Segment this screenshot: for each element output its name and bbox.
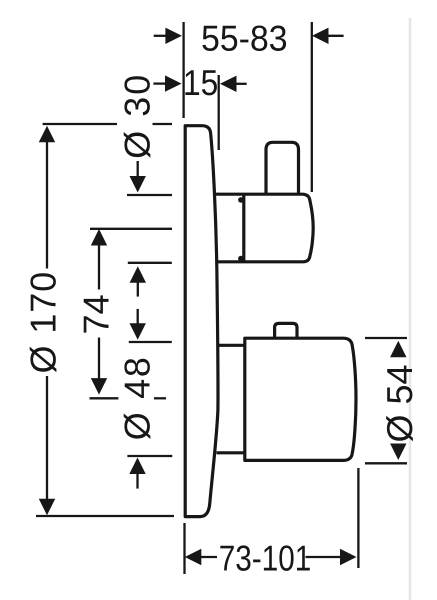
dimension 15 [153,82,166,84]
lower handle button [275,323,297,338]
dimension Ø54 label [386,366,413,442]
dimension Ø48 arrow up [129,458,145,475]
extension line top handle front (right ref of 55-83) [311,22,313,192]
extension line Ø48 top ref [129,341,172,343]
extension line Ø170 bottom ref [36,515,174,517]
extension line Ø54 bottom ref [365,462,407,464]
extension line wall face (left ref of 55-83 and 15) [182,22,184,118]
extension line Ø48 bottom ref [127,455,172,457]
dimension Ø54 arrow up [390,341,406,358]
extension line Ø30 bottom ref [128,262,172,264]
extension line Ø30 top ref [127,194,172,196]
dimension Ø30 line lower [137,281,139,296]
dimension 74 label [84,295,109,332]
extension line 15 right ref [218,75,220,150]
dimension Ø48 line lower [136,472,138,489]
top handle tab lower [238,256,244,262]
dimension Ø170 arrow up [39,126,55,143]
dimension Ø54 arrow down [390,444,406,461]
extension line 73-101 left ref [183,523,185,574]
lower handle neck top line [217,344,245,347]
extension line 74 bottom ref (broken by label) [90,397,119,399]
dimension 55-83 [154,35,167,37]
dimension Ø48 line upper [137,309,139,326]
dimension Ø30 arrow up [130,266,146,283]
lower handle neck bottom line [217,451,245,454]
dimension Ø30 label [124,76,151,157]
extension line 74 top ref [90,228,172,230]
lower handle body outline [245,338,356,460]
dimension Ø170 label [30,273,57,372]
dimension 74 arrow down [91,378,107,395]
extension line Ø54 top ref [365,337,407,339]
extension line Ø170 top ref (broken by Ø30 text) [43,123,117,125]
dimension Ø170 arrow down [39,499,55,516]
dimension Ø170 line lower [46,376,48,501]
dimension 74 line lower [98,338,100,381]
dimension 73-101 [185,549,202,565]
dimension Ø30 line upper [137,161,139,179]
faint page edge line [409,18,412,600]
top handle tab upper [238,197,244,203]
dimension Ø48 label [124,359,151,439]
top handle body outline [214,194,314,262]
dimension 74 line upper [98,244,100,290]
dimension Ø48 arrow down [130,323,146,340]
top handle stem [266,142,299,194]
dimension Ø170 line upper [46,141,48,269]
extension line 73-101 right ref [357,468,359,568]
dimension 74 arrow up [91,229,107,246]
top handle joint line [242,194,245,262]
plate (escutcheon side profile) [185,126,218,517]
dimension Ø30 arrow down [130,176,146,193]
